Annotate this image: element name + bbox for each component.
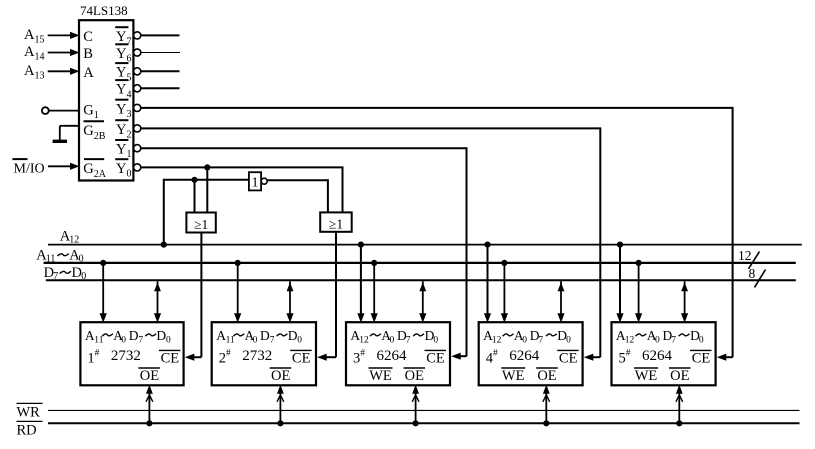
svg-text:2732: 2732	[111, 348, 141, 364]
memory chip 1# 2732	[80, 322, 183, 385]
wire Y5 stub	[141, 70, 180, 72]
svg-text:0: 0	[522, 336, 527, 346]
inversion bubble Y3	[134, 104, 141, 111]
ground	[53, 140, 67, 143]
wire RD to chip 2 OE	[277, 385, 284, 424]
input label A13	[24, 63, 44, 82]
junction A11~A0 tap chip 1	[100, 260, 106, 266]
svg-text:1: 1	[252, 176, 259, 191]
memory chip 4# 6264	[479, 322, 583, 385]
wire A12 to chip 5	[616, 245, 623, 323]
wire A12 to chip 4	[484, 245, 491, 323]
terminal on G1	[42, 107, 49, 114]
svg-text:0: 0	[390, 336, 395, 346]
svg-text:CE: CE	[161, 350, 180, 366]
wire A11~A0 to chip 4	[501, 263, 508, 323]
svg-text:CE: CE	[292, 350, 311, 366]
wire inverter output to OR gate G2	[267, 179, 328, 212]
wire D7~D0 to chip 1 (bidirectional)	[154, 281, 161, 322]
svg-text:0: 0	[121, 336, 126, 346]
junction RD tap chip 3	[413, 420, 419, 426]
or-gate G2	[320, 212, 352, 231]
svg-text:2732: 2732	[242, 348, 272, 364]
wire WR line	[48, 409, 800, 411]
wire A12 to chip 3	[357, 245, 364, 323]
svg-text:CE: CE	[692, 350, 711, 366]
junction A12 to OR gate G1	[191, 177, 197, 183]
svg-text:8: 8	[749, 266, 756, 281]
wire Y1 to chip 3 CE	[141, 147, 467, 360]
input label A14	[24, 44, 44, 63]
svg-text:B: B	[83, 46, 93, 62]
svg-text:12: 12	[738, 248, 752, 263]
input label M/IO	[12, 159, 44, 176]
svg-text:A: A	[83, 65, 94, 81]
junction A11~A0 tap chip 5	[636, 260, 642, 266]
wire A11~A0 to chip 3	[371, 263, 378, 323]
junction A12 tap chip 4	[484, 242, 490, 248]
svg-text:7: 7	[538, 336, 543, 346]
wire D7~D0 to chip 5 (bidirectional)	[681, 281, 688, 322]
svg-text:M/IO: M/IO	[14, 161, 45, 176]
or-gate G1	[186, 213, 215, 233]
node A12 bus label	[60, 228, 80, 245]
svg-text:12: 12	[359, 336, 369, 346]
wire RD to chip 5 OE	[676, 385, 683, 424]
wire RD to chip 1 OE	[146, 385, 153, 424]
svg-text:7: 7	[270, 336, 275, 346]
wire Y2 to chip 4 CE	[141, 127, 600, 360]
svg-text:D: D	[288, 328, 298, 343]
junction RD tap chip 4	[543, 420, 549, 426]
junction A12 tap chip 3	[358, 242, 364, 248]
svg-text:0: 0	[433, 336, 438, 346]
wire Y6 stub	[141, 52, 180, 54]
inverter U2 "1"	[249, 172, 267, 190]
svg-text:11: 11	[226, 336, 235, 346]
svg-text:WR: WR	[17, 405, 41, 421]
svg-text:WE: WE	[635, 368, 658, 384]
wire A13 into pin A	[48, 68, 80, 75]
node D7~D0 bus label	[44, 265, 87, 282]
wire OR gate G1 output to chip 1 CE	[185, 233, 202, 361]
svg-text:0: 0	[566, 336, 571, 346]
junction A11~A0 tap chip 3	[371, 260, 377, 266]
svg-text:OE: OE	[271, 368, 290, 384]
svg-text:12: 12	[625, 336, 635, 346]
wire RD line	[48, 422, 800, 424]
svg-text:≥1: ≥1	[194, 217, 208, 232]
svg-text:0: 0	[253, 336, 258, 346]
decoder U1 74LS138	[79, 3, 133, 180]
wire Y0	[141, 166, 343, 212]
svg-text:0: 0	[166, 336, 171, 346]
svg-text:12: 12	[492, 336, 502, 346]
junction A11~A0 tap chip 2	[235, 260, 241, 266]
junction on Y0	[204, 164, 210, 170]
svg-text:CE: CE	[426, 350, 445, 366]
node WR label	[17, 403, 43, 420]
wire A11~A0 to chip 5	[635, 263, 642, 323]
junction A12 tap chip 5	[617, 242, 623, 248]
junction A12 bus riser	[161, 242, 167, 248]
wire D7~D0 to chip 3 (bidirectional)	[419, 281, 426, 322]
wire D7~D0 to chip 2 (bidirectional)	[286, 281, 293, 322]
wire D7~D0 bus	[46, 279, 796, 281]
svg-text:11: 11	[94, 336, 103, 346]
wire Y3 to chip 5 CE	[141, 107, 733, 361]
wire A11~A0 to chip 2	[234, 263, 241, 323]
svg-text:D: D	[129, 328, 139, 343]
svg-text:0: 0	[655, 336, 660, 346]
svg-text:D: D	[260, 328, 270, 343]
svg-text:6264: 6264	[377, 348, 408, 364]
wire Y7 stub	[141, 34, 180, 36]
node RD label	[17, 421, 43, 438]
wire G1	[49, 110, 79, 112]
wire Y4 stub	[141, 87, 180, 89]
wire A12 branch to OR gate G1	[194, 180, 196, 213]
wire A12 bus	[48, 244, 802, 246]
svg-text:7: 7	[406, 336, 411, 346]
svg-text:WE: WE	[369, 368, 392, 384]
svg-text:≥1: ≥1	[329, 217, 343, 232]
svg-text:D: D	[156, 328, 166, 343]
wire D7~D0 to chip 4 (bidirectional)	[557, 281, 564, 322]
inversion bubble Y1	[134, 145, 141, 152]
memory chip 3# 6264	[346, 322, 450, 385]
inversion bubble Y6	[134, 49, 141, 56]
wire G2B to ground	[60, 126, 79, 141]
junction A11~A0 tap chip 4	[501, 260, 507, 266]
bus width 12 marker	[738, 248, 760, 269]
svg-text:74LS138: 74LS138	[80, 3, 128, 18]
inversion bubble Y4	[134, 85, 141, 92]
inversion bubble Y7	[134, 32, 141, 39]
inversion bubble Y2	[134, 125, 141, 132]
svg-text:RD: RD	[17, 423, 37, 439]
memory chip 2# 2732	[212, 322, 316, 385]
junction RD tap chip 5	[676, 420, 682, 426]
junction RD tap chip 2	[277, 420, 283, 426]
svg-text:WE: WE	[502, 368, 525, 384]
svg-text:C: C	[83, 29, 93, 45]
svg-text:OE: OE	[670, 368, 689, 384]
svg-text:OE: OE	[537, 368, 556, 384]
svg-text:6264: 6264	[642, 348, 673, 364]
bus width 8 marker	[749, 266, 766, 288]
wire A12 riser	[163, 180, 249, 245]
wire RD to chip 4 OE	[543, 385, 550, 424]
inversion bubble Y0	[134, 164, 141, 171]
wire Y0 branch to OR gate G1	[206, 167, 208, 212]
svg-text:7: 7	[671, 336, 676, 346]
svg-text:CE: CE	[559, 350, 578, 366]
wire A11~A0 bus	[44, 262, 796, 264]
wire M/IO into pin G2A	[48, 163, 80, 170]
svg-text:0: 0	[699, 336, 704, 346]
wire A11~A0 to chip 1	[100, 263, 107, 323]
input label A15	[24, 27, 44, 46]
inversion bubble Y5	[134, 68, 141, 75]
svg-text:6264: 6264	[509, 348, 540, 364]
wire A15 into pin C	[48, 32, 80, 39]
wire RD to chip 3 OE	[412, 385, 419, 424]
svg-text:7: 7	[138, 336, 143, 346]
wire A14 into pin B	[48, 49, 80, 56]
node A11~A0 bus label	[36, 247, 83, 264]
svg-text:OE: OE	[405, 368, 424, 384]
junction RD tap chip 1	[146, 420, 152, 426]
svg-text:0: 0	[297, 336, 302, 346]
wire OR gate G2 output to chip 2 CE	[317, 232, 336, 361]
memory chip 5# 6264	[612, 322, 716, 385]
svg-text:OE: OE	[140, 368, 159, 384]
